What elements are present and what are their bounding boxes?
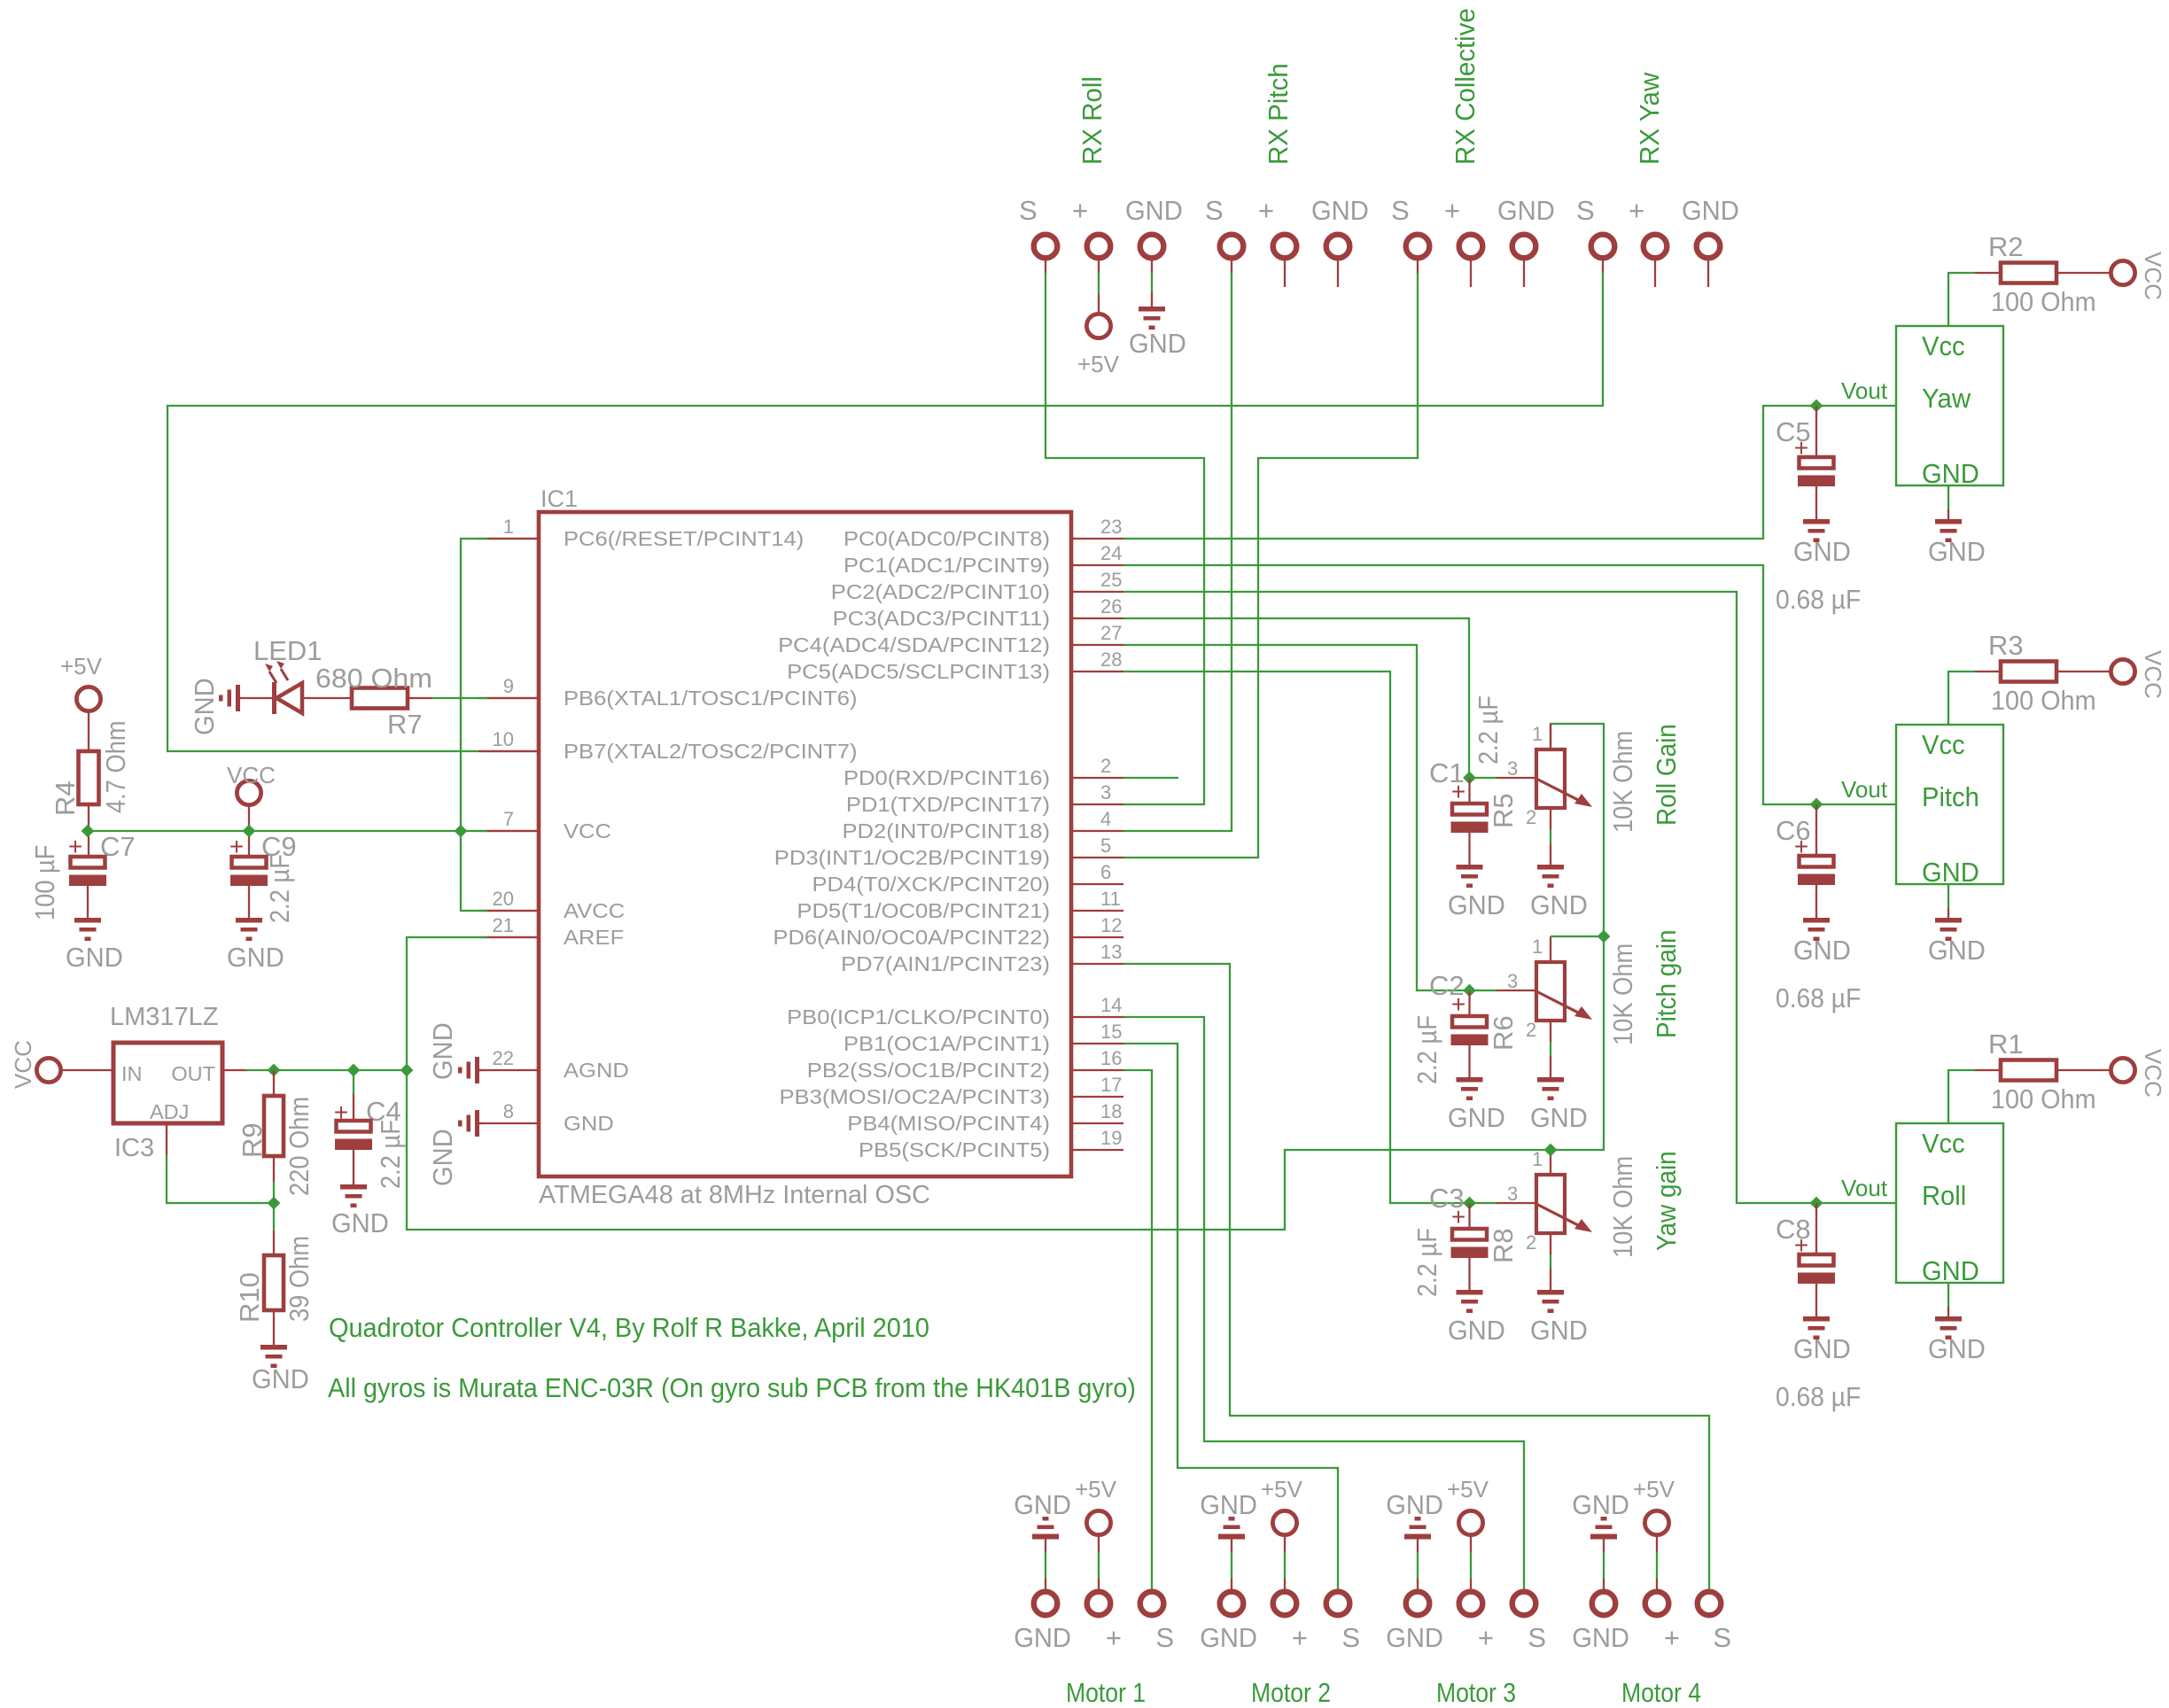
junction VCC pad/C9 [243,825,256,838]
svg-text:GND: GND [1793,935,1851,966]
svg-text:10K Ohm: 10K Ohm [1607,731,1638,833]
resistor R7 680 Ohm [352,688,408,709]
wire RX Roll S to IC pin 3 (PD1) [1045,260,1046,273]
svg-text:GND: GND [1200,1622,1257,1653]
svg-text:PD3(INT1/OC2B/PCINT19): PD3(INT1/OC2B/PCINT19) [774,846,1050,869]
resistor R3 100 Ohm [2001,662,2056,682]
svg-text:PC5(ADC5/SCLPCINT13): PC5(ADC5/SCLPCINT13) [787,660,1050,683]
pad Motor 3 GND [1406,1592,1430,1616]
svg-text:PC3(ADC3/PCINT11): PC3(ADC3/PCINT11) [833,607,1050,630]
capacitor C2 2.2 uF [1468,990,1470,1016]
svg-text:PD4(T0/XCK/PCINT20): PD4(T0/XCK/PCINT20) [812,873,1051,896]
IC U-block IC1 outline [539,512,1071,1176]
junction AREF / LM317 OUT [400,1064,414,1077]
pad RX Collective + [1459,235,1483,259]
svg-text:PC1(ADC1/PCINT9): PC1(ADC1/PCINT9) [843,554,1050,577]
svg-text:GND: GND [1448,889,1505,920]
svg-text:2.2 µF: 2.2 µF [264,854,295,923]
svg-text:LM317LZ: LM317LZ [110,1003,219,1031]
svg-text:GND: GND [252,1363,309,1394]
IC1 pin 9 PB6(XTAL1/TOSC1/PCINT6) [478,697,539,699]
svg-text:PB0(ICP1/CLKO/PCINT0): PB0(ICP1/CLKO/PCINT0) [787,1005,1050,1029]
wire RX Collective S to IC pin 5 (PD3) [1417,260,1419,273]
svg-text:PC2(ADC2/PCINT10): PC2(ADC2/PCINT10) [831,580,1050,603]
junction Vout/C5 [1810,400,1823,413]
svg-text:16: 16 [1100,1047,1122,1069]
pad RX Collective S [1406,235,1430,259]
ground symbol Motor 4 [1590,1517,1617,1540]
svg-text:23: 23 [1100,516,1122,538]
IC1 pin 6 PD4(T0/XCK/PCINT20) [1071,883,1123,885]
svg-text:GND: GND [1311,195,1369,226]
ground under gyro Roll [1935,1316,1962,1339]
pad Motor 2 S [1326,1592,1350,1616]
wire IC pin 24 to Pitch gyro Vout [1123,565,1896,804]
svg-text:VCC: VCC [227,762,276,788]
pot rail pin1 R8 [1550,1150,1551,1175]
IC1 pin 28 PC5(ADC5/SCLPCINT13) [1071,671,1123,672]
svg-text:2: 2 [1526,1231,1536,1254]
svg-text:ATMEGA48 at 8MHz Internal OSC: ATMEGA48 at 8MHz Internal OSC [539,1181,930,1209]
svg-text:R5: R5 [1488,793,1519,828]
IC1 pin 24 PC1(ADC1/PCINT9) [1071,564,1123,566]
resistor R2 100 Ohm [2001,263,2056,283]
ground GND (RX Roll) [1151,260,1153,273]
svg-text:S: S [1341,1622,1360,1653]
svg-text:+5V: +5V [60,653,103,679]
gyro module box Pitch [1896,725,2003,884]
svg-text:RX Collective: RX Collective [1450,8,1481,165]
svg-text:GND: GND [1530,1315,1588,1346]
ground symbol Motor 2 [1218,1517,1245,1540]
svg-text:S: S [1205,195,1224,226]
IC1 pin 4 PD2(INT0/PCINT18) [1071,830,1123,832]
svg-text:680 Ohm: 680 Ohm [315,663,432,694]
svg-text:GND: GND [1530,889,1588,920]
svg-text:10K Ohm: 10K Ohm [1607,1156,1638,1258]
svg-text:GND: GND [1448,1102,1505,1133]
svg-text:4.7 Ohm: 4.7 Ohm [100,720,131,813]
wire IC pin 27 to C2/R6 Pitch gain [1123,645,1470,990]
junction Vout/C6 [1810,798,1823,811]
junction pot rail R6 [1598,930,1611,943]
svg-text:GND: GND [331,1207,389,1238]
svg-text:11: 11 [1100,888,1121,910]
wire R3 to VCC [2056,671,2110,672]
svg-text:S: S [1391,195,1410,226]
svg-text:Motor 3: Motor 3 [1436,1677,1516,1708]
wire IC pin 25 to Roll gyro Vout [1123,592,1896,1203]
svg-text:100 Ohm: 100 Ohm [1991,286,2096,317]
svg-text:R6: R6 [1488,1015,1519,1051]
pad Motor 1 + [1087,1592,1111,1616]
capacitor C5 0.68 uF [1815,406,1817,457]
pad RX Roll GND [1140,235,1164,259]
IC3 LM317LZ voltage regulator [61,1069,113,1071]
pad RX Yaw GND [1697,235,1721,259]
wire LM317 ADJ to R9/R10 divider [166,1123,167,1155]
wire R7 to IC pin 9 [408,697,432,699]
pad Motor 4 GND [1592,1592,1616,1616]
svg-text:Vcc: Vcc [1922,330,1965,361]
pad RX Roll + [1087,235,1111,259]
wire gyro Yaw Vcc to R2 [1948,273,1975,326]
IC1 pin 18 PB4(MISO/PCINT4) [1071,1122,1123,1124]
wire stub IC pin 2 PD0 [1123,777,1178,779]
svg-text:GND: GND [1530,1102,1588,1133]
IC1 pin 23 PC0(ADC0/PCINT8) [1071,538,1123,540]
svg-text:PB4(MISO/PCINT4): PB4(MISO/PCINT4) [847,1112,1050,1135]
resistor R4 4.7 Ohm [88,711,89,751]
svg-text:17: 17 [1100,1074,1122,1096]
svg-text:2.2 µF: 2.2 µF [1411,1228,1442,1297]
svg-text:R4: R4 [50,780,81,816]
svg-text:+: + [1106,1622,1122,1653]
svg-text:PB5(SCK/PCINT5): PB5(SCK/PCINT5) [859,1138,1050,1161]
svg-text:AREF: AREF [564,926,624,949]
pad RX Yaw + [1644,235,1668,259]
svg-text:GND: GND [227,942,284,973]
svg-text:Motor 2: Motor 2 [1251,1677,1331,1708]
junction OUT/R9 [268,1064,281,1077]
IC1 pin 20 AVCC [478,910,539,912]
svg-text:5: 5 [1100,835,1111,857]
svg-text:PD7(AIN1/PCINT23): PD7(AIN1/PCINT23) [841,952,1050,975]
supply VCC (Pitch) [2111,659,2134,683]
pad RX Roll S [1034,235,1058,259]
pot rail pin1 R6 [1550,936,1551,963]
svg-text:IC1: IC1 [540,485,578,512]
wire VCC rail to IC pin 7 [88,830,487,832]
svg-text:18: 18 [1100,1100,1122,1122]
svg-text:+: + [1072,195,1088,226]
svg-text:10K Ohm: 10K Ohm [1607,943,1638,1045]
svg-text:+: + [1258,195,1274,226]
wire IC pin 1 RESET to VCC rail [461,539,487,911]
IC1 pin 12 PD6(AIN0/OC0A/PCINT22) [1071,936,1123,938]
svg-text:GND: GND [1386,1622,1443,1653]
svg-text:GND: GND [1922,857,1979,888]
IC1 pin 17 PB3(MOSI/OC2A/PCINT3) [1071,1096,1123,1098]
supply +5V Motor 2 [1272,1510,1296,1534]
trimmer potentiometer R8 10K Ohm [1470,1202,1497,1204]
resistor R9 220 Ohm [273,1070,275,1096]
svg-text:IN: IN [121,1062,143,1085]
svg-text:100 Ohm: 100 Ohm [1991,685,2096,716]
pad Motor 3 S [1512,1592,1536,1616]
supply VCC (left) [237,780,260,804]
svg-text:IC3: IC3 [114,1134,154,1162]
svg-text:100 Ohm: 100 Ohm [1991,1083,2096,1114]
svg-text:1: 1 [1532,723,1543,745]
svg-text:0.68 µF: 0.68 µF [1776,1381,1861,1412]
svg-text:100 µF: 100 µF [29,845,60,920]
junction pot rail R8 [1544,1144,1558,1157]
wire LM317 OUT rail [222,1069,246,1071]
pad RX Yaw S [1591,235,1615,259]
svg-text:Vout: Vout [1841,776,1888,803]
ground symbol at IC1 pin 22 AGND [478,1069,483,1071]
svg-text:10: 10 [493,728,514,750]
gyro module box Yaw [1896,326,2003,485]
svg-text:3: 3 [1507,970,1518,992]
svg-text:9: 9 [503,675,514,697]
svg-text:25: 25 [1100,569,1122,591]
svg-text:Pitch gain: Pitch gain [1651,930,1682,1039]
svg-text:GND: GND [1448,1315,1505,1346]
svg-text:R1: R1 [1988,1029,2024,1060]
wire IC pin 13 to Motor 4 S [1123,964,1709,1589]
svg-text:GND: GND [1572,1622,1629,1653]
svg-text:+: + [1444,195,1460,226]
junction OUT/C4 [347,1064,361,1077]
svg-text:PB7(XTAL2/TOSC2/PCINT7): PB7(XTAL2/TOSC2/PCINT7) [564,740,858,763]
svg-text:GND: GND [1125,195,1183,226]
wire IC pin 14 to Motor 3 S [1123,1017,1524,1589]
svg-text:Vcc: Vcc [1922,1128,1965,1159]
svg-text:2: 2 [1526,806,1536,828]
svg-text:Vcc: Vcc [1922,729,1965,760]
ground under gyro Pitch [1935,918,1962,941]
capacitor C4 2.2 uF [353,1070,354,1094]
svg-text:12: 12 [1100,914,1122,936]
ground under R10 [260,1345,287,1368]
svg-text:PB3(MOSI/OC2A/PCINT3): PB3(MOSI/OC2A/PCINT3) [780,1085,1051,1108]
svg-text:VCC: VCC [564,819,611,842]
svg-text:GND: GND [1793,1333,1851,1364]
IC1 pin 1 PC6(/RESET/PCINT14) [478,538,539,540]
junction ADJ/R9/R10 [268,1197,281,1210]
ground symbol Motor 1 [1032,1517,1059,1540]
svg-text:GND: GND [1014,1622,1071,1653]
pad Motor 4 S [1698,1592,1722,1616]
svg-text:R8: R8 [1488,1228,1519,1263]
svg-text:GND: GND [1129,328,1186,359]
svg-text:R2: R2 [1988,231,2024,262]
svg-text:+: + [1451,1203,1465,1231]
wire IC pin 26 to C1/R5 Roll Gain [1123,618,1469,778]
svg-text:220 Ohm: 220 Ohm [284,1097,315,1196]
svg-text:3: 3 [1507,757,1518,780]
ground symbol Motor 3 [1404,1517,1431,1540]
svg-text:+5V: +5V [1261,1476,1303,1502]
capacitor C6 0.68 uF [1815,804,1817,856]
IC1 pin 27 PC4(ADC4/SDA/PCINT12) [1071,644,1123,646]
IC1 pin 25 PC2(ADC2/PCINT10) [1071,591,1123,593]
svg-text:AVCC: AVCC [564,899,625,922]
pad RX Pitch + [1273,235,1297,259]
wire RX Pitch S to IC pin 4 (PD2) [1231,260,1232,273]
svg-text:S: S [1576,195,1595,226]
IC1 pin 21 AREF [478,936,539,938]
svg-text:S: S [1713,1622,1731,1653]
svg-text:28: 28 [1100,648,1122,671]
svg-text:S: S [1019,195,1038,226]
svg-text:PD1(TXD/PCINT17): PD1(TXD/PCINT17) [846,793,1050,816]
pad Motor 4 + [1645,1592,1669,1616]
junction VCC/R4/C7 [82,825,95,838]
svg-text:8: 8 [503,1100,514,1122]
svg-text:+5V: +5V [1447,1476,1489,1502]
IC1 pin 2 PD0(RXD/PCINT16) [1071,777,1123,779]
capacitor C8 0.68 uF [1815,1203,1817,1254]
svg-text:21: 21 [493,914,514,936]
svg-text:GND: GND [564,1112,614,1135]
svg-text:Quadrotor Controller V4, By Ro: Quadrotor Controller V4, By Rolf R Bakke… [329,1312,929,1343]
svg-text:3: 3 [1100,781,1111,804]
svg-text:All gyros is Murata ENC-03R (O: All gyros is Murata ENC-03R (On gyro sub… [328,1372,1136,1403]
svg-text:PB2(SS/OC1B/PCINT2): PB2(SS/OC1B/PCINT2) [807,1059,1050,1082]
svg-text:AGND: AGND [564,1059,629,1082]
svg-text:+5V: +5V [1075,1476,1117,1502]
svg-text:+: + [1664,1622,1680,1653]
svg-text:GND: GND [1793,536,1851,567]
wire gyro Roll GND pin [1947,1283,1949,1307]
wire LED1 to R7 [302,697,352,699]
svg-text:3: 3 [1507,1183,1518,1205]
svg-text:1: 1 [1532,1148,1543,1170]
pad RX Pitch S [1220,235,1244,259]
svg-text:39 Ohm: 39 Ohm [284,1236,315,1322]
svg-text:19: 19 [1100,1127,1122,1149]
svg-text:1: 1 [1532,936,1543,958]
wire gyro Pitch Vcc to R3 [1948,672,1975,725]
wire RX Yaw S to IC pin 10 (PB7) [1602,260,1604,273]
svg-text:GND: GND [1922,1255,1979,1286]
svg-text:Pitch: Pitch [1922,781,1979,812]
svg-text:+: + [1451,778,1465,805]
IC1 pin 22 AGND [478,1069,539,1071]
svg-text:PD6(AIN0/OC0A/PCINT22): PD6(AIN0/OC0A/PCINT22) [773,926,1050,949]
svg-text:Motor 1: Motor 1 [1066,1677,1146,1708]
resistor R1 100 Ohm [2001,1060,2056,1081]
svg-text:7: 7 [503,808,514,830]
svg-text:0.68 µF: 0.68 µF [1776,584,1861,615]
svg-text:26: 26 [1100,595,1122,617]
IC1 pin 19 PB5(SCK/PCINT5) [1071,1149,1123,1151]
junction C2/pot R6 [1463,984,1476,998]
IC1 pin 26 PC3(ADC3/PCINT11) [1071,617,1123,619]
svg-text:1: 1 [503,516,514,538]
svg-text:14: 14 [1100,994,1122,1016]
wire gyro Yaw GND pin [1947,485,1949,509]
IC1 pin 8 GND [478,1122,539,1124]
supply VCC (LM317 input) [36,1058,60,1082]
svg-text:20: 20 [493,888,514,910]
wire IC pin 28 to C3/R8 Yaw gain [1123,672,1470,1203]
pad RX Collective GND [1512,235,1536,259]
IC1 pin 10 PB7(XTAL2/TOSC2/PCINT7) [478,750,539,752]
IC1 pin 7 VCC [478,830,539,832]
svg-text:22: 22 [493,1047,514,1069]
svg-text:GND: GND [1928,935,1986,966]
svg-text:S: S [1528,1622,1546,1653]
svg-text:PD2(INT0/PCINT18): PD2(INT0/PCINT18) [843,819,1051,842]
svg-text:+5V: +5V [1077,351,1120,377]
unconnected pin stubs RX groups 2-4 [1284,260,1286,287]
svg-text:RX Pitch: RX Pitch [1263,63,1294,165]
svg-text:VCC: VCC [2140,1049,2166,1098]
svg-text:PC0(ADC0/PCINT8): PC0(ADC0/PCINT8) [843,527,1050,550]
LED LED1 [240,697,272,699]
supply VCC (Roll) [2111,1058,2134,1082]
supply +5V Motor 1 [1086,1510,1110,1534]
pad Motor 1 GND [1034,1592,1058,1616]
capacitor C3 2.2 uF [1468,1203,1470,1229]
svg-text:S: S [1155,1622,1174,1653]
svg-text:2: 2 [1100,755,1111,777]
junction C1/pot R5 [1463,772,1476,785]
pad Motor 3 + [1459,1592,1483,1616]
IC1 pin 14 PB0(ICP1/CLKO/PCINT0) [1071,1016,1123,1018]
svg-text:GND: GND [427,1129,458,1186]
capacitor C1 2.2 uF [1468,778,1470,804]
svg-text:OUT: OUT [171,1062,215,1085]
svg-text:+: + [1292,1622,1308,1653]
IC1 pin 16 PB2(SS/OC1B/PCINT2) [1071,1069,1123,1071]
trimmer potentiometer R5 10K Ohm [1470,777,1497,779]
junction RESET/VCC rail [455,825,468,838]
wire IC pin 16 to Motor 1 S [1123,1070,1152,1589]
wire R2 to VCC [2056,272,2110,274]
svg-text:PD5(T1/OC0B/PCINT21): PD5(T1/OC0B/PCINT21) [797,899,1050,922]
svg-text:4: 4 [1100,808,1111,830]
svg-text:GND: GND [1572,1489,1629,1520]
svg-text:GND: GND [427,1022,458,1080]
svg-text:2.2 µF: 2.2 µF [1473,695,1504,765]
svg-text:+: + [1451,990,1465,1018]
svg-text:13: 13 [1100,941,1122,963]
svg-text:+: + [1629,195,1644,226]
svg-text:Yaw gain: Yaw gain [1651,1151,1682,1251]
svg-text:VCC: VCC [2140,252,2166,300]
svg-text:0.68 µF: 0.68 µF [1776,982,1861,1013]
junction C3/pot R8 [1463,1197,1476,1210]
svg-text:6: 6 [1100,861,1111,883]
svg-text:PD0(RXD/PCINT16): PD0(RXD/PCINT16) [843,766,1050,789]
svg-text:PC6(/RESET/PCINT14): PC6(/RESET/PCINT14) [564,527,804,550]
svg-text:GND: GND [66,942,123,973]
supply +5V Motor 3 [1458,1510,1482,1534]
IC1 pin 5 PD3(INT1/OC2B/PCINT19) [1071,857,1123,858]
svg-text:GND: GND [1014,1489,1071,1520]
svg-text:R7: R7 [387,709,423,740]
gyro module box Roll [1896,1123,2003,1283]
ground symbol at IC1 pin 8 GND [478,1122,483,1124]
svg-text:GND: GND [1928,1333,1986,1364]
IC1 pin 13 PD7(AIN1/PCINT23) [1071,963,1123,965]
svg-text:PC4(ADC4/SDA/PCINT12): PC4(ADC4/SDA/PCINT12) [778,633,1050,656]
svg-text:2.2 µF: 2.2 µF [375,1120,406,1189]
svg-text:Vout: Vout [1841,1175,1888,1201]
svg-text:GND: GND [1386,1489,1443,1520]
junction Vout/C8 [1810,1197,1823,1210]
svg-text:VCC: VCC [10,1040,36,1089]
svg-text:R3: R3 [1988,630,2024,661]
wire gyro Pitch GND pin [1947,884,1949,908]
pad Motor 1 S [1140,1592,1164,1616]
pad Motor 2 + [1273,1592,1297,1616]
svg-text:Vout: Vout [1841,377,1888,404]
svg-text:24: 24 [1100,542,1122,564]
ground symbol at LED1 [219,685,240,711]
wire R1 to VCC [2056,1069,2110,1071]
svg-text:GND: GND [1200,1489,1257,1520]
svg-text:2.2 µF: 2.2 µF [1411,1015,1442,1084]
svg-text:+: + [1478,1622,1494,1653]
svg-text:ADJ: ADJ [150,1100,189,1123]
wire IC pin 15 to Motor 2 S [1123,1044,1338,1589]
